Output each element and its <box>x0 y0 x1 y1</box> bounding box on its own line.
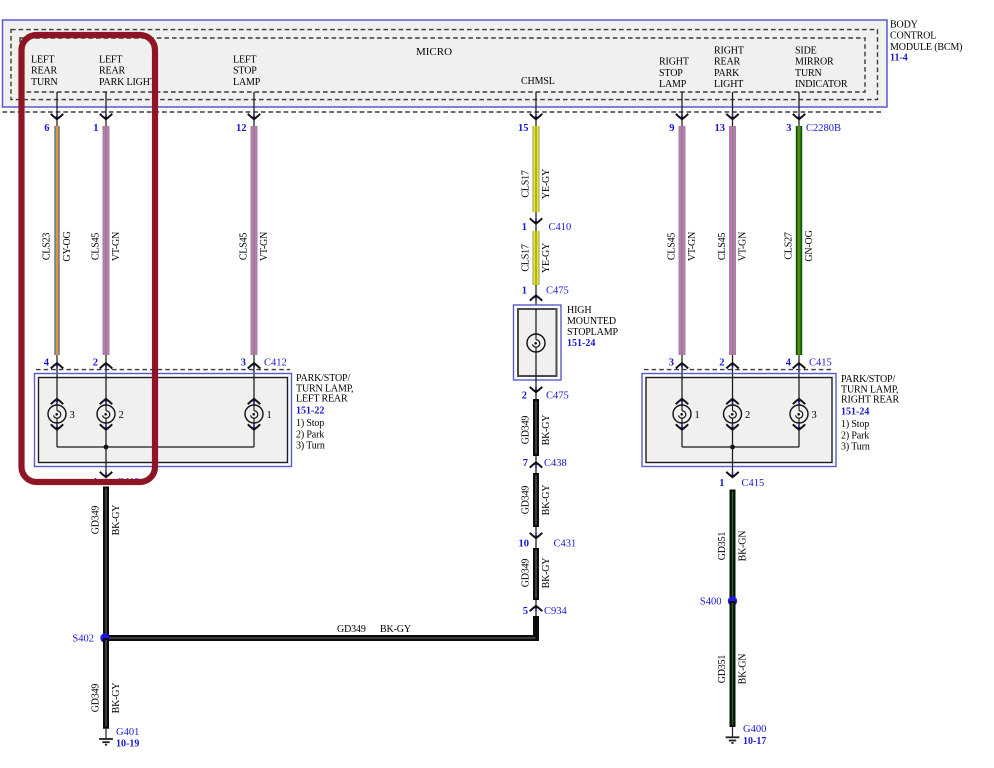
BCM page reference 11-4 <box>890 53 908 64</box>
ground label G400 <box>743 724 766 735</box>
wire label GD351 <box>717 532 728 561</box>
wire label CLS45 <box>667 233 678 261</box>
wire label GD349 <box>521 416 532 445</box>
svg-text:4: 4 <box>786 358 792 369</box>
wire inside right lamp assembly to bulb 1 <box>681 374 683 447</box>
bulb arrow down (lamp 1) <box>676 424 688 431</box>
svg-text:11-4: 11-4 <box>890 53 908 64</box>
splice label S400 <box>700 597 722 608</box>
left lamp page reference 151-22 <box>296 405 324 416</box>
wire CLS27 GN-OG (side mirror turn indicator feed) <box>796 126 802 355</box>
BCM output label: CHMSL <box>521 76 555 87</box>
svg-text:15: 15 <box>518 123 529 134</box>
svg-text:6: 6 <box>44 123 49 134</box>
ground label G401 <box>116 727 139 738</box>
svg-text:GD351: GD351 <box>717 655 728 684</box>
junction node on right bus <box>730 445 735 450</box>
svg-text:1) Stop: 1) Stop <box>296 418 324 429</box>
bulb arrow down (lamp 2) <box>100 424 112 431</box>
splice label S402 <box>72 634 94 645</box>
connector C415 pin 1 arrow (exit) <box>726 472 738 479</box>
pin number 9 <box>669 123 674 134</box>
connector C2280B pin 6 arrow <box>51 114 63 121</box>
HMSL name label <box>567 305 618 338</box>
wire label CLS17 <box>521 244 532 272</box>
connector C415 pin 4 arrow <box>793 355 805 374</box>
connector name C431 <box>554 539 577 550</box>
svg-text:LEFT REAR: LEFT REAR <box>296 394 348 405</box>
svg-text:7: 7 <box>523 458 528 469</box>
wire inside left lamp assembly to bulb 1 <box>253 374 255 447</box>
svg-text:3: 3 <box>669 358 674 369</box>
wire CLS17 YE-GY segment (CHMSL feed lower) <box>533 231 540 285</box>
junction node on left bus <box>104 445 109 450</box>
bulb number 2 <box>119 410 124 421</box>
svg-text:SIDE: SIDE <box>795 45 817 56</box>
lamp bulb 3 (right rear) <box>790 405 808 423</box>
left lamp legend <box>296 418 325 451</box>
connector C431 arrow <box>530 527 542 548</box>
wire GD351 BK-GN (right lamp to splice S400) <box>730 490 736 602</box>
wire label GD349 <box>91 506 102 535</box>
svg-text:VT-GN: VT-GN <box>259 232 270 261</box>
pin number 7 at C438 <box>523 458 528 469</box>
pin number 12 <box>236 123 247 134</box>
svg-text:LIGHT: LIGHT <box>714 79 743 90</box>
svg-text:RIGHT: RIGHT <box>714 45 744 56</box>
svg-text:BK-GY: BK-GY <box>111 683 122 714</box>
wire label CLS27 <box>784 232 795 260</box>
svg-text:151-22: 151-22 <box>296 405 324 416</box>
bulb arrow up (lamp 3) <box>793 398 805 405</box>
wire stub from BCM pin 3 <box>798 92 800 126</box>
BCM output label: RIGHT REAR PARK LIGHT <box>714 45 744 90</box>
svg-text:CLS45: CLS45 <box>239 233 250 261</box>
wire label BK-GY <box>541 558 552 589</box>
left lamp assembly ground bus wire <box>57 446 254 448</box>
connector name C415 <box>742 478 765 489</box>
bulb arrow down (lamp 2) <box>726 424 738 431</box>
connector C2280B boundary (dashed) <box>3 111 882 113</box>
svg-text:C415: C415 <box>809 358 832 369</box>
pin number 4 <box>44 358 50 369</box>
wire stub from BCM pin 13 <box>732 92 734 126</box>
wire stub from BCM pin 9 <box>681 92 683 126</box>
connector C412 pin 2 arrow <box>100 355 112 374</box>
svg-text:S402: S402 <box>72 634 94 645</box>
bulb number 2 <box>745 410 750 421</box>
BCM output label: LEFT REAR PARK LIGHT <box>99 54 156 88</box>
svg-text:13: 13 <box>715 123 726 134</box>
svg-text:151-24: 151-24 <box>567 338 595 349</box>
pin number 2 at C475 <box>522 391 527 402</box>
left lamp assembly name label <box>296 373 353 405</box>
svg-text:C431: C431 <box>554 539 577 550</box>
left rear lamp assembly box <box>35 374 292 467</box>
connector name C410 <box>549 222 572 233</box>
svg-text:1: 1 <box>522 285 527 296</box>
bulb arrow up (lamp 3) <box>51 398 63 405</box>
pin number 15 <box>518 123 529 134</box>
wire label VT-GN <box>687 232 698 261</box>
svg-text:MODULE (BCM): MODULE (BCM) <box>890 42 962 53</box>
svg-text:BK-GY: BK-GY <box>541 415 552 446</box>
svg-text:CHMSL: CHMSL <box>521 76 555 87</box>
ground G400 symbol <box>726 727 740 743</box>
lamp bulb 1 (left rear) <box>245 405 263 423</box>
connector name C415 <box>809 358 832 369</box>
svg-text:3: 3 <box>812 410 817 421</box>
svg-text:STOP: STOP <box>659 68 683 79</box>
BCM name label <box>890 20 962 53</box>
svg-text:G401: G401 <box>116 727 139 738</box>
wire stub from BCM pin 15 <box>535 92 537 126</box>
wire label BK-GY <box>541 415 552 446</box>
svg-text:GD349: GD349 <box>521 416 532 445</box>
wire label CLS45 <box>717 233 728 261</box>
wire from right bus to box exit <box>732 447 734 474</box>
pin number 6 <box>44 123 49 134</box>
connector name C412 <box>117 477 140 488</box>
wire label BK-GY <box>541 485 552 516</box>
svg-text:GY-OG: GY-OG <box>62 231 73 261</box>
svg-text:1: 1 <box>522 222 527 233</box>
connector C438 arrow <box>530 456 542 473</box>
svg-text:BODY: BODY <box>890 20 918 31</box>
right rear lamp assembly box <box>642 374 836 467</box>
BCM output label: SIDE MIRROR TURN INDICATOR <box>795 45 848 90</box>
svg-text:PARK LIGHT: PARK LIGHT <box>99 77 156 88</box>
svg-text:HIGH: HIGH <box>567 305 591 316</box>
wire GD349 BK-GY segment (C438 to C431) <box>533 473 539 527</box>
svg-text:VT-GN: VT-GN <box>687 232 698 261</box>
wire label CLS17 <box>521 170 532 198</box>
right lamp assembly ground bus wire <box>682 446 799 448</box>
svg-text:YE-GY: YE-GY <box>541 243 552 273</box>
svg-text:CLS27: CLS27 <box>784 232 795 260</box>
connector C2280B pin 1 arrow <box>100 114 112 121</box>
bulb number 1 <box>695 410 700 421</box>
ground page reference 10-19 <box>116 738 139 749</box>
svg-text:LEFT: LEFT <box>233 54 256 65</box>
svg-text:BK-GN: BK-GN <box>738 654 749 685</box>
svg-text:GD349: GD349 <box>521 486 532 515</box>
wire inside right lamp assembly to bulb 2 <box>732 374 734 447</box>
wire GD349 BK-GY (S402 to ground G401) <box>103 638 109 729</box>
svg-text:BK-GN: BK-GN <box>738 531 749 562</box>
connector C475 pin 1 arrow (into HMSL) <box>530 285 542 306</box>
splice S402 <box>100 633 109 642</box>
bulb number 3 <box>70 410 75 421</box>
splice S400 <box>728 596 737 605</box>
svg-text:C415: C415 <box>742 478 765 489</box>
svg-text:TURN: TURN <box>795 68 822 79</box>
svg-text:BK-GY: BK-GY <box>541 485 552 516</box>
wire label VT-GN <box>738 232 749 261</box>
ground page reference 10-17 <box>743 736 766 747</box>
svg-text:GD349: GD349 <box>521 559 532 588</box>
lamp bulb 2 (left rear) <box>97 405 115 423</box>
wire CLS45 VT-GN (right stop lamp feed) <box>679 126 686 355</box>
wire label GD349 <box>521 559 532 588</box>
svg-text:1: 1 <box>719 478 724 489</box>
svg-text:C410: C410 <box>549 222 572 233</box>
svg-text:2: 2 <box>745 410 750 421</box>
bulb arrow up (lamp 1) <box>676 398 688 405</box>
right lamp page reference 151-24 <box>841 406 869 417</box>
pin number 1 at C412 exit <box>93 477 98 488</box>
lamp bulb 3 (left rear) <box>48 405 66 423</box>
ground G401 symbol <box>99 729 113 745</box>
wire CLS45 VT-GN (left stop lamp feed) <box>251 126 258 355</box>
wire label YE-GY <box>541 243 552 273</box>
svg-text:REAR: REAR <box>714 57 741 68</box>
svg-text:2: 2 <box>119 410 124 421</box>
bulb arrow up (lamp 2) <box>100 398 112 405</box>
svg-text:PARK: PARK <box>714 68 740 79</box>
bulb arrow down (lamp 3) <box>793 424 805 431</box>
svg-text:1: 1 <box>695 410 700 421</box>
connector name C438 <box>544 458 567 469</box>
wire label GD349 (horizontal run) <box>337 624 366 635</box>
svg-text:LEFT: LEFT <box>99 54 122 65</box>
bulb number 1 <box>267 410 272 421</box>
wire label CLS45 <box>91 233 102 261</box>
connector name C934 <box>544 606 568 617</box>
svg-text:GD349: GD349 <box>91 684 102 713</box>
connector name C475 <box>546 391 569 402</box>
svg-text:10-17: 10-17 <box>743 736 766 747</box>
connector C2280B pin 15 arrow <box>530 114 542 121</box>
lamp bulb 2 (right rear) <box>724 405 742 423</box>
connector name C412 <box>264 358 287 369</box>
connector C412 pin 3 arrow <box>248 355 260 374</box>
svg-text:GN-OG: GN-OG <box>804 230 815 261</box>
svg-text:CLS17: CLS17 <box>521 170 532 198</box>
svg-text:MICRO: MICRO <box>416 46 452 58</box>
svg-text:G400: G400 <box>743 724 766 735</box>
highlight annotation (red rounded rectangle) <box>22 35 156 482</box>
svg-text:YE-GY: YE-GY <box>541 169 552 199</box>
pin number 13 <box>715 123 726 134</box>
pin number 1 at C415 exit <box>719 478 724 489</box>
pin number 10 at C431 <box>519 539 530 550</box>
wire inside left lamp assembly to bulb 3 <box>56 374 58 447</box>
svg-text:C934: C934 <box>544 606 568 617</box>
HMSL page reference 151-24 <box>567 338 595 349</box>
wire GD349 BK-GY segment (HMSL to C438) <box>533 399 539 456</box>
svg-text:3: 3 <box>70 410 75 421</box>
svg-text:REAR: REAR <box>99 66 126 77</box>
svg-text:12: 12 <box>236 123 247 134</box>
svg-text:STOP: STOP <box>233 66 257 77</box>
pin number 2 <box>719 358 724 369</box>
bulb number 3 <box>812 410 817 421</box>
connector C415 boundary dashes over box <box>644 369 834 371</box>
pin number 3 <box>241 358 246 369</box>
pin number 2 <box>93 358 98 369</box>
svg-text:10: 10 <box>519 539 530 550</box>
pin number 1 at C410 <box>522 222 527 233</box>
svg-text:1: 1 <box>267 410 272 421</box>
svg-text:MOUNTED: MOUNTED <box>567 316 616 327</box>
connector C2280B pin 13 arrow <box>726 114 738 121</box>
svg-text:CLS45: CLS45 <box>667 233 678 261</box>
svg-text:LEFT: LEFT <box>31 54 54 65</box>
svg-text:BK-GY: BK-GY <box>380 624 411 635</box>
svg-text:2: 2 <box>522 391 527 402</box>
svg-text:C475: C475 <box>546 285 569 296</box>
right lamp assembly name label <box>841 374 900 406</box>
svg-text:RIGHT: RIGHT <box>659 57 689 68</box>
svg-text:1) Stop: 1) Stop <box>841 419 869 430</box>
bulb arrow up (lamp 1) <box>248 398 260 405</box>
svg-text:GD351: GD351 <box>717 532 728 561</box>
svg-text:3: 3 <box>241 358 246 369</box>
wire from left bus to box exit <box>105 447 107 474</box>
connector C412 pin 4 arrow <box>51 355 63 374</box>
bulb arrow down (lamp 3) <box>51 424 63 431</box>
BCM module box U1 (Body Control Module) <box>3 20 888 107</box>
connector C415 pin 2 arrow <box>726 355 738 374</box>
connector C415 pin 3 arrow <box>676 355 688 374</box>
svg-text:CLS17: CLS17 <box>521 244 532 272</box>
wire label VT-GN <box>259 232 270 261</box>
wire label CLS23 <box>42 233 53 261</box>
BCM output label: LEFT STOP LAMP <box>233 54 261 88</box>
wire label BK-GY (horizontal run) <box>380 624 411 635</box>
svg-text:CLS45: CLS45 <box>717 233 728 261</box>
svg-text:2) Park: 2) Park <box>296 429 324 440</box>
pin number 3 <box>786 123 791 134</box>
svg-text:9: 9 <box>669 123 674 134</box>
svg-text:C412: C412 <box>264 358 287 369</box>
wire CLS45 VT-GN (right rear park light feed) <box>729 126 736 355</box>
connector C412 boundary dashes over box <box>36 369 290 371</box>
svg-text:CLS45: CLS45 <box>91 233 102 261</box>
wire label BK-GN <box>738 531 749 562</box>
svg-text:3) Turn: 3) Turn <box>296 441 325 452</box>
wire stub from BCM pin 1 <box>105 92 107 126</box>
pin number 5 at C934 <box>523 606 528 617</box>
connector C934 arrow <box>530 600 542 617</box>
connector C2280B pin 9 arrow <box>676 114 688 121</box>
connector C412 pin 1 arrow (exit) <box>100 472 112 479</box>
svg-text:LAMP: LAMP <box>233 77 261 88</box>
svg-text:5: 5 <box>523 606 528 617</box>
wire GD349 BK-GY segment (C431 to C934) <box>533 548 539 600</box>
wire stub from BCM pin 6 <box>56 92 58 126</box>
BCM output label: LEFT REAR TURN <box>31 54 58 88</box>
wire stub from BCM pin 12 <box>253 92 255 126</box>
wire label YE-GY <box>541 169 552 199</box>
svg-text:TURN: TURN <box>31 77 58 88</box>
HMSL bulb symbol <box>527 334 545 352</box>
connector C410 arrow <box>530 212 542 231</box>
bulb arrow up (lamp 2) <box>726 398 738 405</box>
wire label GD349 <box>521 486 532 515</box>
svg-text:RIGHT REAR: RIGHT REAR <box>841 395 900 406</box>
connector name C475 <box>546 285 569 296</box>
svg-text:LAMP: LAMP <box>659 79 687 90</box>
pin number 1 at C475 <box>522 285 527 296</box>
svg-text:VT-GN: VT-GN <box>111 232 122 261</box>
svg-text:BK-GY: BK-GY <box>541 558 552 589</box>
svg-text:INDICATOR: INDICATOR <box>795 79 848 90</box>
connector C2280B pin 12 arrow <box>248 114 260 121</box>
pin number 4 <box>786 358 792 369</box>
lamp bulb 1 (right rear) <box>673 405 691 423</box>
svg-text:2: 2 <box>719 358 724 369</box>
svg-text:2: 2 <box>93 358 98 369</box>
svg-text:C2280B: C2280B <box>806 123 841 134</box>
connector C2280B pin 3 arrow <box>793 114 805 121</box>
wire label GD349 <box>91 684 102 713</box>
svg-text:GD349: GD349 <box>91 506 102 535</box>
connector name C2280B <box>806 123 841 134</box>
wire GD349 BK-GY run to splice S402 (corner) <box>106 616 536 638</box>
svg-text:C475: C475 <box>546 391 569 402</box>
wire label GD351 <box>717 655 728 684</box>
svg-text:3: 3 <box>786 123 791 134</box>
wire label BK-GN <box>738 654 749 685</box>
wire GD349 BK-GY (left lamp to splice S402) <box>103 487 109 639</box>
svg-text:GD349: GD349 <box>337 624 366 635</box>
wire GD351 BK-GN (S400 to ground G400) <box>730 601 736 727</box>
lamp E3 HIGH MOUNTED STOPLAMP box <box>514 305 562 380</box>
pin number 1 <box>93 123 98 134</box>
wire label GN-OG <box>804 230 815 261</box>
wire CLS23 GY-OG (left rear turn feed) <box>54 126 60 355</box>
svg-text:1: 1 <box>93 123 98 134</box>
svg-text:151-24: 151-24 <box>841 406 869 417</box>
svg-text:CLS23: CLS23 <box>42 233 53 261</box>
svg-text:REAR: REAR <box>31 66 58 77</box>
wire label BK-GY <box>111 683 122 714</box>
svg-text:CONTROL: CONTROL <box>890 31 936 42</box>
svg-text:2) Park: 2) Park <box>841 430 869 441</box>
wire label CLS45 <box>239 233 250 261</box>
wire inside right lamp assembly to bulb 3 <box>798 374 800 447</box>
svg-text:S400: S400 <box>700 597 722 608</box>
wire CLS17 YE-GY segment (CHMSL feed upper) <box>533 126 540 212</box>
svg-text:VT-GN: VT-GN <box>738 232 749 261</box>
MICRO internal module box <box>20 38 865 92</box>
wire inside left lamp assembly to bulb 2 <box>105 374 107 447</box>
connector C475 pin 2 arrow (out of HMSL) <box>530 376 542 399</box>
svg-text:C438: C438 <box>544 458 567 469</box>
BCM output label: RIGHT STOP LAMP <box>659 57 689 91</box>
wire label BK-GY <box>111 505 122 536</box>
pin number 3 <box>669 358 674 369</box>
wire label VT-GN <box>111 232 122 261</box>
svg-text:BK-GY: BK-GY <box>111 505 122 536</box>
svg-text:STOPLAMP: STOPLAMP <box>567 327 618 338</box>
svg-text:MIRROR: MIRROR <box>795 57 834 68</box>
svg-text:4: 4 <box>44 358 50 369</box>
bulb arrow down (lamp 1) <box>248 424 260 431</box>
wire CLS45 VT-GN (left rear park light feed) <box>103 126 110 355</box>
svg-text:3) Turn: 3) Turn <box>841 442 870 453</box>
wire label GY-OG <box>62 231 73 261</box>
svg-text:10-19: 10-19 <box>116 738 139 749</box>
right lamp legend <box>841 419 870 452</box>
